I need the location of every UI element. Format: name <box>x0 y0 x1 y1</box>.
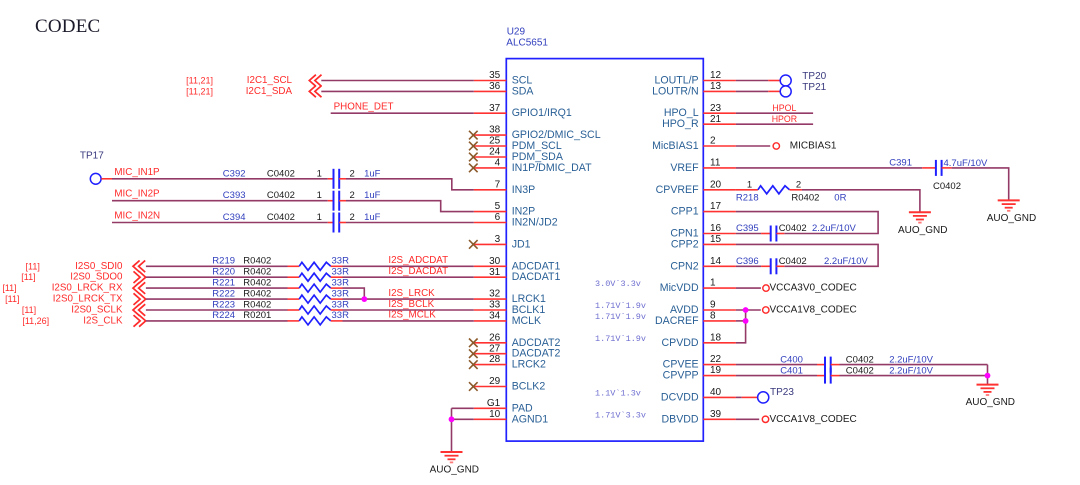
node AGND junction <box>449 416 455 422</box>
svg-text:2.2uF/10V: 2.2uF/10V <box>889 365 933 376</box>
wire I2C1_SDA <box>321 90 474 92</box>
wire I2S0_SDI0 <box>146 265 288 267</box>
wire PAD to ground <box>451 408 453 452</box>
ground AUO_GND <box>977 385 999 395</box>
svg-text:33R: 33R <box>332 288 350 299</box>
svg-text:33R: 33R <box>332 277 350 288</box>
svg-text:1uF: 1uF <box>364 190 381 201</box>
pin 40 DCVDD stub <box>703 396 736 398</box>
pin 16 CPN1 stub <box>703 233 736 235</box>
svg-text:CPVPP: CPVPP <box>663 370 699 382</box>
op-amp U1 codec IC U29 body <box>506 59 703 442</box>
stub TP17 <box>101 178 112 180</box>
wire DACREF <box>736 320 746 322</box>
svg-text:[11]: [11] <box>22 305 36 315</box>
svg-text:2.2uF/10V: 2.2uF/10V <box>824 256 868 267</box>
svg-text:2.2uF/10V: 2.2uF/10V <box>812 223 856 234</box>
pin 2 MicBIAS1 stub <box>703 145 736 147</box>
capacitor C394 pin2 stub <box>339 222 346 224</box>
wire MICBIAS1 <box>736 145 770 147</box>
capacitor C396 <box>771 258 777 274</box>
svg-text:MCLK: MCLK <box>512 315 541 327</box>
wire CPV to C400 <box>736 364 817 366</box>
svg-text:VCCA1V8_CODEC: VCCA1V8_CODEC <box>770 414 857 425</box>
resistor R221 pin1 stub <box>288 287 300 289</box>
capacitor C394 pin1 stub <box>328 222 334 224</box>
svg-text:I2C1_SDA: I2C1_SDA <box>246 86 293 97</box>
wire I2C1_SCL <box>321 80 474 82</box>
resistor R221 <box>299 284 331 292</box>
svg-text:DBVDD: DBVDD <box>662 413 699 425</box>
pin 6 IN2N/JD2 stub <box>474 222 507 224</box>
net connector VCCA1V8_CODEC <box>762 416 768 422</box>
svg-text:R219: R219 <box>212 256 235 267</box>
svg-text:13: 13 <box>710 81 722 92</box>
svg-text:R220: R220 <box>212 267 235 278</box>
svg-text:1: 1 <box>317 190 322 201</box>
svg-text:2: 2 <box>350 168 355 179</box>
svg-text:10: 10 <box>489 409 501 420</box>
svg-text:35: 35 <box>489 70 501 81</box>
resistor R218 pin1 stub <box>736 189 758 191</box>
pin 23 HPO_L stub <box>703 112 736 114</box>
wire CPP to C396 <box>736 244 878 266</box>
capacitor C401 pin2 stub <box>831 375 840 377</box>
pin 27 DACDAT2 stub <box>474 353 507 355</box>
svg-text:MIC_IN1P: MIC_IN1P <box>114 167 160 178</box>
no-connect X <box>469 339 478 348</box>
pin 24 PDM_SDA stub <box>474 156 507 158</box>
svg-text:CPP1: CPP1 <box>671 206 699 218</box>
pin 11 VREF stub <box>703 167 736 169</box>
resistor R219 <box>299 262 331 270</box>
wire I2S0_SDO0 <box>146 276 288 278</box>
wire MIC_IN1P <box>112 178 328 180</box>
wire MIC_IN2N to pin <box>346 222 474 224</box>
svg-text:I2S0_SDO0: I2S0_SDO0 <box>70 272 123 283</box>
resistor R219 pin1 stub <box>288 265 300 267</box>
wire I2S0_LRCK_RX jog <box>343 288 365 299</box>
svg-text:TP20: TP20 <box>802 71 826 82</box>
resistor R220 <box>299 273 331 281</box>
svg-text:40: 40 <box>710 387 722 398</box>
svg-text:33: 33 <box>489 300 501 311</box>
svg-text:30: 30 <box>489 256 501 267</box>
svg-text:2: 2 <box>710 136 716 147</box>
wire MIC_IN2N <box>112 222 328 224</box>
capacitor C396 pin2 stub <box>776 265 784 267</box>
svg-text:IN3P: IN3P <box>512 184 536 196</box>
pin 28 LRCK2 stub <box>474 364 507 366</box>
pin 9 AVDD stub <box>703 309 736 311</box>
svg-text:C396: C396 <box>736 256 759 267</box>
wire R222 out <box>343 298 474 300</box>
svg-text:8: 8 <box>710 311 716 322</box>
resistor R223 <box>299 306 331 314</box>
svg-text:VREF: VREF <box>670 162 699 174</box>
pin 31 DACDAT1 stub <box>474 276 507 278</box>
svg-text:TP21: TP21 <box>802 82 826 93</box>
no-connect X <box>469 142 478 151</box>
wire AVDD <box>736 309 761 311</box>
svg-text:C0402: C0402 <box>267 168 295 179</box>
svg-text:U29: U29 <box>507 26 526 37</box>
pin 14 CPN2 stub <box>703 265 736 267</box>
svg-text:I2S0_SDI0: I2S0_SDI0 <box>75 261 123 272</box>
testpoint TP23 <box>758 392 769 403</box>
pin 35 SCL stub <box>474 80 507 82</box>
svg-text:2: 2 <box>350 212 355 223</box>
capacitor C391 <box>936 160 942 176</box>
wire I2S0_SCLK <box>146 309 288 311</box>
testpoint TP17 <box>90 173 101 184</box>
wire R218 to ground <box>802 190 920 212</box>
svg-text:IN1P/DMIC_DAT: IN1P/DMIC_DAT <box>512 162 592 174</box>
svg-text:C393: C393 <box>223 190 246 201</box>
svg-text:11: 11 <box>710 158 721 169</box>
pin 3 JD1 stub <box>474 243 507 245</box>
wire HPOR <box>736 123 813 125</box>
svg-text:R221: R221 <box>212 277 235 288</box>
svg-text:AUO_GND: AUO_GND <box>966 397 1015 408</box>
svg-text:[11]: [11] <box>21 272 35 282</box>
svg-text:C395: C395 <box>736 223 759 234</box>
svg-text:C391: C391 <box>889 158 912 169</box>
svg-text:37: 37 <box>489 103 501 114</box>
pin 5 IN2P stub <box>474 211 507 213</box>
svg-text:2.2uF/10V: 2.2uF/10V <box>889 354 933 365</box>
wire DBVDD <box>736 418 759 420</box>
capacitor C396 pin1 stub <box>761 265 771 267</box>
svg-text:I2S_BCLK: I2S_BCLK <box>388 299 434 310</box>
resistor R218 pin2 stub <box>790 189 802 191</box>
svg-text:I2C1_SCL: I2C1_SCL <box>247 75 293 86</box>
pin 39 DBVDD stub <box>703 418 736 420</box>
resistor R223 pin2 stub <box>331 309 343 311</box>
pin 25 PDM_SCL stub <box>474 145 507 147</box>
svg-text:21: 21 <box>710 114 722 125</box>
svg-text:I2S_DACDAT: I2S_DACDAT <box>388 266 448 277</box>
svg-text:2: 2 <box>796 179 801 190</box>
svg-text:HPOR: HPOR <box>772 114 797 124</box>
svg-text:[11,21]: [11,21] <box>186 76 213 86</box>
wire MIC_IN2P <box>112 200 328 202</box>
no-connect X <box>469 164 478 173</box>
pin 20 CPVREF stub <box>703 189 736 191</box>
capacitor C393 <box>334 191 340 211</box>
pin 29 BCLK2 stub <box>474 386 507 388</box>
resistor R224 pin2 stub <box>331 320 343 322</box>
svg-text:MIC_IN2P: MIC_IN2P <box>114 189 160 200</box>
svg-text:36: 36 <box>489 81 501 92</box>
svg-text:ALC5651: ALC5651 <box>506 38 548 49</box>
svg-text:LOUTR/N: LOUTR/N <box>652 85 699 97</box>
svg-text:G1: G1 <box>487 398 501 409</box>
ground AUO_GND <box>909 212 931 222</box>
no-connect X <box>469 349 478 358</box>
svg-text:31: 31 <box>489 267 501 278</box>
resistor R219 pin2 stub <box>331 265 343 267</box>
svg-text:25: 25 <box>489 136 501 147</box>
wire R219 out <box>343 265 474 267</box>
svg-text:LRCK2: LRCK2 <box>512 359 546 371</box>
svg-text:R0402: R0402 <box>243 299 271 310</box>
svg-text:I2S0_LRCK_RX: I2S0_LRCK_RX <box>52 283 123 294</box>
svg-text:33R: 33R <box>332 256 350 267</box>
wire R223 out <box>343 309 474 311</box>
svg-text:R223: R223 <box>212 299 235 310</box>
wire R224 out <box>343 320 474 322</box>
wire C400 out <box>840 364 988 366</box>
net connector VCCA3V0_CODEC <box>763 285 769 291</box>
svg-text:33R: 33R <box>332 310 350 321</box>
capacitor C393 pin2 stub <box>339 200 346 202</box>
wire PHONE_DET <box>331 112 474 114</box>
pin 8 DACREF stub <box>703 320 736 322</box>
svg-text:DCVDD: DCVDD <box>661 391 699 403</box>
svg-text:CPVDD: CPVDD <box>662 337 699 349</box>
wire CPN to C395 <box>736 233 761 235</box>
wire CPVDD <box>736 310 746 343</box>
svg-text:R222: R222 <box>212 288 235 299</box>
svg-text:MICBIAS1: MICBIAS1 <box>790 141 837 152</box>
off-page connector I2S0_SCLK <box>133 304 145 316</box>
no-connect X <box>469 153 478 162</box>
svg-text:PHONE_DET: PHONE_DET <box>334 101 394 112</box>
node CPVPP junction <box>985 373 991 379</box>
wire CPV to C401 <box>736 375 817 377</box>
capacitor C400 pin2 stub <box>831 364 840 366</box>
svg-text:[11]: [11] <box>26 261 40 271</box>
capacitor C392 pin1 stub <box>328 178 334 180</box>
capacitor C392 pin2 stub <box>339 178 346 180</box>
svg-text:5: 5 <box>495 201 501 212</box>
node I2S_LRCK junction <box>361 296 367 302</box>
svg-text:32: 32 <box>489 289 501 300</box>
svg-text:R0201: R0201 <box>243 310 271 321</box>
pin 33 BCLK1 stub <box>474 309 507 311</box>
svg-text:1: 1 <box>317 212 322 223</box>
svg-text:CPN2: CPN2 <box>670 260 698 272</box>
svg-text:R224: R224 <box>212 310 235 321</box>
no-connect X <box>469 240 478 249</box>
ground AUO_GND <box>441 452 463 462</box>
resistor R218 <box>758 186 790 194</box>
wire VREF <box>736 167 922 169</box>
svg-text:22: 22 <box>710 354 722 365</box>
svg-text:1: 1 <box>747 179 752 190</box>
svg-text:I2S_CLK: I2S_CLK <box>83 315 123 326</box>
svg-text:1: 1 <box>317 168 322 179</box>
net connector VCCA1V8_CODEC <box>763 307 769 313</box>
pin 34 MCLK stub <box>474 320 507 322</box>
svg-text:C0402: C0402 <box>267 212 295 223</box>
svg-text:HPOL: HPOL <box>772 103 796 113</box>
wire I2S0_LRCK_RX <box>146 287 288 289</box>
resistor R221 pin2 stub <box>331 287 343 289</box>
net connector MICBIAS1 <box>773 143 779 149</box>
svg-text:C0402: C0402 <box>846 365 874 376</box>
pin 26 ADCDAT2 stub <box>474 342 507 344</box>
wire I2S0_LRCK_TX <box>146 298 288 300</box>
pin 4 IN1P/DMIC_DAT stub <box>474 167 507 169</box>
svg-text:0R: 0R <box>834 192 846 203</box>
svg-text:R0402: R0402 <box>243 277 271 288</box>
node DACREF junction <box>743 318 749 324</box>
svg-text:MicBIAS1: MicBIAS1 <box>652 140 699 152</box>
svg-text:39: 39 <box>710 409 722 420</box>
svg-text:DACREF: DACREF <box>655 315 699 327</box>
capacitor C391 pin1 stub <box>922 167 936 169</box>
capacitor C391 pin2 stub <box>942 167 952 169</box>
svg-text:AUO_GND: AUO_GND <box>987 213 1036 224</box>
testpoint TP21 <box>780 86 791 97</box>
svg-text:R0402: R0402 <box>243 256 271 267</box>
svg-text:R0402: R0402 <box>243 267 271 278</box>
off-page connector I2S0_LRCK_TX <box>134 293 146 305</box>
wire C391 to ground <box>952 168 1009 201</box>
svg-text:AUO_GND: AUO_GND <box>898 225 947 236</box>
resistor R223 pin1 stub <box>288 309 300 311</box>
svg-text:27: 27 <box>489 343 501 354</box>
svg-text:14: 14 <box>710 256 722 267</box>
svg-text:IN2N/JD2: IN2N/JD2 <box>512 217 558 229</box>
svg-text:[11,26]: [11,26] <box>22 316 49 326</box>
pin 1 MicVDD stub <box>703 287 736 289</box>
svg-text:24: 24 <box>489 147 501 158</box>
svg-text:VCCA3V0_CODEC: VCCA3V0_CODEC <box>770 283 857 294</box>
testpoint TP20 <box>780 75 791 86</box>
wire TP21 <box>736 90 768 92</box>
pin 21 HPO_R stub <box>703 123 736 125</box>
wire C401 out <box>840 375 988 377</box>
wire DCVDD <box>736 396 742 398</box>
stub TP20 <box>768 80 780 82</box>
capacitor C395 pin2 stub <box>776 233 784 235</box>
resistor R220 pin1 stub <box>288 276 300 278</box>
svg-text:1.71V`1.9v: 1.71V`1.9v <box>595 334 646 344</box>
pin 19 CPVPP stub <box>703 375 736 377</box>
pin 13 LOUTR/N stub <box>703 90 736 92</box>
capacitor C393 pin1 stub <box>328 200 334 202</box>
svg-text:2: 2 <box>350 190 355 201</box>
svg-text:33R: 33R <box>332 299 350 310</box>
svg-text:23: 23 <box>710 103 722 114</box>
svg-text:R218: R218 <box>736 192 759 203</box>
svg-text:4: 4 <box>495 158 501 169</box>
svg-text:C400: C400 <box>780 354 803 365</box>
pin 15 CPP2 stub <box>703 243 736 245</box>
svg-text:TP17: TP17 <box>80 150 104 161</box>
node AVDD junction <box>743 307 749 313</box>
svg-text:I2S0_SCLK: I2S0_SCLK <box>71 305 123 316</box>
off-page connector I2S0_SDI0 <box>133 261 145 273</box>
svg-text:BCLK2: BCLK2 <box>512 381 546 393</box>
pin 18 CPVDD stub <box>703 342 736 344</box>
svg-text:1uF: 1uF <box>364 212 381 223</box>
svg-text:I2S_LRCK: I2S_LRCK <box>388 288 435 299</box>
svg-text:VCCA1V8_CODEC: VCCA1V8_CODEC <box>770 305 857 316</box>
svg-text:C0402: C0402 <box>933 181 961 192</box>
svg-text:33R: 33R <box>332 267 350 278</box>
wire to ground <box>987 365 989 385</box>
pin 22 CPVEE stub <box>703 364 736 366</box>
svg-text:1uF: 1uF <box>364 168 381 179</box>
svg-text:12: 12 <box>710 70 722 81</box>
svg-text:[11,21]: [11,21] <box>186 86 213 96</box>
svg-text:R0402: R0402 <box>791 192 819 203</box>
svg-text:HPO_R: HPO_R <box>662 118 699 130</box>
svg-text:38: 38 <box>489 125 501 136</box>
svg-text:C0402: C0402 <box>846 354 874 365</box>
capacitor C392 <box>334 169 340 189</box>
svg-text:18: 18 <box>710 332 722 343</box>
svg-text:SDA: SDA <box>512 85 535 97</box>
pin 17 CPP1 stub <box>703 211 736 213</box>
wire MicVDD <box>736 287 761 289</box>
svg-text:6: 6 <box>495 212 501 223</box>
resistor R222 <box>299 295 331 303</box>
svg-text:1.71V`1.9v: 1.71V`1.9v <box>595 312 646 322</box>
pin G1 PAD stub <box>474 407 507 409</box>
svg-text:26: 26 <box>489 332 501 343</box>
resistor R224 pin1 stub <box>288 320 300 322</box>
no-connect X <box>469 382 478 391</box>
pin 32 LRCK1 stub <box>474 298 507 300</box>
stub TP21 <box>768 90 780 92</box>
wire TP20 <box>736 80 768 82</box>
wire R220 out <box>343 276 474 278</box>
svg-text:29: 29 <box>489 376 501 387</box>
svg-text:[11]: [11] <box>5 294 19 304</box>
wire PAD <box>452 407 474 409</box>
ground AUO_GND <box>998 200 1020 210</box>
resistor R222 pin1 stub <box>288 298 300 300</box>
svg-text:MIC_IN2N: MIC_IN2N <box>114 211 160 222</box>
svg-text:3: 3 <box>495 234 501 245</box>
svg-text:C392: C392 <box>223 168 246 179</box>
pin 38 GPIO2/DMIC_SCL stub <box>474 134 507 136</box>
svg-text:1.71V`3.3v: 1.71V`3.3v <box>595 410 646 420</box>
svg-text:1.1V`1.3v: 1.1V`1.3v <box>595 388 641 398</box>
pin 7 IN3P stub <box>474 189 507 191</box>
svg-text:20: 20 <box>710 179 722 190</box>
resistor R220 pin2 stub <box>331 276 343 278</box>
svg-text:19: 19 <box>710 365 722 376</box>
wire CPN to C396 <box>736 265 761 267</box>
pin 30 ADCDAT1 stub <box>474 265 507 267</box>
svg-text:28: 28 <box>489 354 501 365</box>
stub TP23 <box>742 396 758 398</box>
no-connect X <box>469 131 478 140</box>
svg-text:MicVDD: MicVDD <box>660 282 699 294</box>
svg-text:JD1: JD1 <box>512 238 531 250</box>
off-page connector I2S0_LRCK_RX <box>133 282 145 294</box>
resistor R224 <box>299 317 331 325</box>
resistor R222 pin2 stub <box>331 298 343 300</box>
no-connect X <box>469 360 478 369</box>
capacitor C401 pin1 stub <box>817 375 825 377</box>
svg-text:GPIO1/IRQ1: GPIO1/IRQ1 <box>512 107 572 119</box>
svg-text:R0402: R0402 <box>243 288 271 299</box>
svg-text:CODEC: CODEC <box>35 16 100 37</box>
svg-text:16: 16 <box>710 223 722 234</box>
svg-text:17: 17 <box>710 201 722 212</box>
svg-text:C0402: C0402 <box>779 223 807 234</box>
pin 12 LOUTL/P stub <box>703 80 736 82</box>
svg-text:15: 15 <box>710 234 722 245</box>
wire HPOL <box>736 112 813 114</box>
